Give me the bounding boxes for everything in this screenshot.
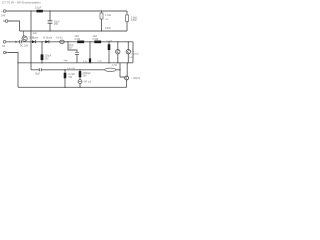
- svg-text:4,7Ω: 4,7Ω: [112, 64, 117, 67]
- wire rail2: [20, 30, 128, 32]
- black comp at x65: [64, 73, 67, 79]
- svg-text:1kΩ: 1kΩ: [33, 33, 37, 35]
- transistor Q2 left small: [22, 36, 27, 41]
- output jack circle at x80: [78, 80, 82, 84]
- svg-text:1nF 63V: 1nF 63V: [67, 68, 76, 70]
- fuse oval on y70 line: [105, 68, 116, 71]
- svg-text:0,1µF: 0,1µF: [107, 40, 113, 42]
- svg-text:0,5W: 0,5W: [75, 38, 81, 41]
- rail3 cap gap mask: [20, 41, 21, 42]
- wire rail4: [18, 62, 133, 64]
- svg-text:abgl: abgl: [64, 60, 69, 62]
- diode D2 on rail3: [45, 40, 48, 43]
- wire jog x68 to small cap x77: [68, 42, 77, 63]
- wire vertical x120: [119, 63, 121, 77]
- svg-text:10µF: 10µF: [35, 73, 41, 76]
- svg-text:0,1µ: 0,1µ: [98, 60, 103, 62]
- wire rail3 mid rail: [6, 41, 133, 43]
- terminal input + top: [3, 10, 6, 13]
- svg-text:– AD161: – AD161: [131, 77, 141, 80]
- wire vertical x108 electrolytic branch: [108, 42, 110, 63]
- transistor Qc: [125, 76, 129, 80]
- svg-text:25V: 25V: [54, 23, 59, 26]
- wire vertical x133 right edge: [132, 42, 134, 63]
- black comp at x90: [89, 58, 91, 62]
- svg-text:0,5Ω: 0,5Ω: [129, 57, 134, 59]
- wire input2 top terminal to rail2: [8, 21, 20, 31]
- transistor Qb: [126, 50, 130, 54]
- wire rail1 +V top rail: [6, 10, 127, 12]
- wire feedback line y70: [31, 69, 120, 71]
- svg-text:25V: 25V: [83, 75, 88, 78]
- capacitor plates input: [20, 40, 22, 43]
- terminal AF input: [3, 41, 6, 44]
- wire vertical x42: [41, 42, 43, 63]
- black resistor 1 on rail3: [77, 41, 84, 44]
- capacitor C2 plates at x50: [48, 21, 53, 23]
- svg-text:2N3055: 2N3055: [131, 53, 139, 55]
- wire bottom rail: [18, 86, 127, 88]
- arrow on AF input wire: [15, 41, 18, 43]
- small cap plates at x77: [75, 52, 79, 54]
- svg-text:63V: 63V: [69, 48, 74, 50]
- svg-text:0,5W: 0,5W: [105, 27, 111, 30]
- svg-text:25V: 25V: [45, 57, 50, 60]
- capacitor series on y70 line: [39, 68, 41, 71]
- capacitor black on rail1: [37, 10, 43, 13]
- svg-text:Si-Diode: Si-Diode: [29, 37, 39, 40]
- svg-text:NF: NF: [2, 45, 6, 48]
- wire vertical x101: [101, 11, 103, 31]
- wire vertical x127 right: [126, 11, 128, 31]
- svg-text:Ge-Di.: Ge-Di.: [56, 37, 63, 40]
- resistor R box at x101: [100, 13, 103, 19]
- wire vertical x18 left return: [8, 53, 18, 88]
- svg-text:0,5W: 0,5W: [93, 38, 99, 41]
- wire transistor Qa leads: [117, 42, 119, 63]
- svg-text:4,7kΩ: 4,7kΩ: [105, 15, 111, 17]
- terminal input 2nd: [5, 20, 8, 23]
- terminal arrow lower input: [4, 51, 6, 53]
- wire vertical x31 bias chain: [30, 11, 32, 70]
- wire transistor Qb leads: [127, 42, 129, 63]
- black comp at x80: [79, 71, 82, 77]
- round component on rail3: [60, 40, 65, 43]
- wire transistor Qc leads: [120, 63, 127, 88]
- resistor R box at x127: [126, 15, 129, 22]
- black resistor 2 on rail3: [94, 41, 101, 44]
- junction dots: [17, 10, 129, 88]
- transistor Qa: [116, 50, 120, 54]
- svg-text:+: +: [1, 9, 3, 13]
- electrolytic cap black at x108: [108, 44, 111, 50]
- svg-text:BC 108: BC 108: [20, 44, 29, 47]
- svg-text:CT 70 W – NF-Endverstärker: CT 70 W – NF-Endverstärker: [2, 0, 41, 4]
- svg-text:Si-Diode: Si-Diode: [43, 37, 53, 40]
- wire vertical x80 comp to output jack: [79, 70, 81, 88]
- svg-text:0,5W: 0,5W: [131, 19, 137, 22]
- svg-text:0,1µ: 0,1µ: [83, 61, 88, 63]
- svg-text:0,1µF: 0,1µF: [35, 7, 42, 10]
- svg-text:AF out: AF out: [84, 80, 91, 83]
- svg-text:24V: 24V: [1, 15, 6, 18]
- diode D1 on rail3: [32, 40, 35, 43]
- wire vertical x50: [49, 11, 51, 31]
- wire vertical x90: [89, 42, 91, 59]
- electrolytic cap black at x42: [41, 54, 44, 60]
- wire vertical x65 comp: [64, 70, 66, 88]
